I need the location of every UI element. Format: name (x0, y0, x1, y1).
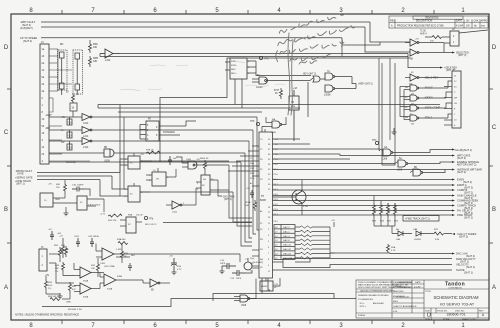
svg-text:L308: L308 (382, 159, 388, 161)
counter 2R box (152, 172, 166, 186)
ground 3C (64, 210, 69, 216)
svg-text:4D: 4D (148, 119, 151, 121)
handwriting row 2 (276, 25, 356, 46)
wire 6B joins (234, 279, 256, 301)
wire UP TO SPEED bus (41, 37, 342, 39)
svg-text:2K: 2K (275, 93, 278, 95)
wire drop col 1 (229, 165, 252, 218)
svg-text:D.M.: D.M. (393, 311, 398, 313)
svg-text:TOLERANCES:: TOLERANCES: (358, 298, 374, 301)
svg-text:PRODUCTION RELEASE PER ECO 1: PRODUCTION RELEASE PER ECO 17368 (397, 24, 444, 27)
crystal Y1 (244, 262, 252, 270)
MCU left stubs (228, 146, 259, 268)
test point TP6 (259, 56, 262, 59)
svg-text:DAC-4: DAC-4 (283, 235, 290, 238)
svg-text:9C: 9C (128, 224, 131, 226)
svg-text:-INDEX: -INDEX (424, 96, 433, 100)
svg-text:6A: 6A (399, 157, 402, 160)
wire command seek (273, 200, 453, 202)
svg-text:APPD: APPD (481, 20, 488, 23)
svg-text:TITLE: TITLE (425, 291, 431, 293)
svg-text:QUALITY ASSURANCE: QUALITY ASSURANCE (393, 305, 417, 308)
flip-flop 5C a (128, 156, 140, 169)
wire U308 out (49, 153, 245, 162)
gate 9A trk0 (410, 115, 419, 121)
box 4N FWD control (230, 58, 247, 79)
inverter 6E (150, 279, 160, 287)
svg-text:6B: 6B (410, 59, 413, 61)
wire Q1 leads (273, 180, 303, 215)
inverter 6C (410, 39, 419, 46)
svg-text:(16.8 MHZ): (16.8 MHZ) (252, 262, 263, 264)
vertical feeder columns (379, 58, 404, 165)
resistor R44 562 (62, 262, 65, 272)
MCU left pin labels (250, 158, 255, 273)
wire FORWARD feeds (140, 121, 196, 139)
svg-text:(SHT 2): (SHT 2) (457, 156, 466, 160)
svg-text:CHK: CHK (473, 20, 478, 23)
wire gate input feeders (400, 78, 410, 120)
svg-text:4.7K: 4.7K (391, 250, 396, 252)
pull-up Y10 box 3 (67, 144, 72, 150)
svg-text:R4B: R4B (128, 215, 133, 217)
capacitor C30 (72, 187, 84, 192)
wire bottom long bus (42, 279, 356, 307)
svg-text:8T: 8T (261, 194, 264, 198)
svg-text:20PF: 20PF (220, 263, 226, 265)
capacitor C8 ohm (76, 238, 80, 247)
zone ticks bottom (62, 320, 434, 324)
svg-text:.XXX ±: .XXX ± (359, 306, 367, 308)
svg-text:HDY (3HT 2): HDY (3HT 2) (303, 74, 316, 76)
zone letters left (4, 45, 9, 291)
nand gate 7A (325, 73, 335, 80)
inverter U4 L314 (82, 138, 92, 145)
wire WRT GATE line (340, 154, 452, 156)
inverter U3 L314 (82, 127, 92, 134)
wire drop col 7 (253, 130, 256, 234)
resistor RPA 330 (89, 42, 92, 53)
svg-text:A: A (492, 285, 496, 291)
svg-text:1%: 1% (55, 271, 58, 273)
svg-text:W. Schroeder: W. Schroeder (396, 297, 410, 299)
svg-text:(SHT 1): (SHT 1) (464, 215, 473, 219)
svg-text:350A: 350A (83, 280, 89, 283)
test point TP9 (256, 122, 259, 125)
wire compg track (273, 205, 453, 207)
wire ff stubs (120, 105, 152, 197)
svg-text:8C: 8C (411, 72, 414, 74)
ground right mid (392, 128, 397, 135)
wire bank tops (374, 196, 395, 227)
svg-text:DAC-16: DAC-16 (283, 244, 292, 247)
wire drop col 6 (249, 141, 252, 238)
wire drop col 3 (237, 161, 252, 226)
resistor R 200 (432, 36, 442, 39)
resistor R40 220 (64, 183, 67, 193)
svg-text:B: B (4, 207, 8, 213)
svg-text:-DIR: -DIR (45, 127, 50, 130)
svg-text:2R: 2R (156, 179, 159, 181)
MCU U7 8008 (259, 132, 273, 278)
svg-text:DAC-8: DAC-8 (283, 239, 290, 242)
ground crystal (220, 266, 225, 274)
wire fine track (273, 214, 453, 216)
svg-text:GATE: GATE (17, 173, 24, 176)
svg-text:330: 330 (93, 46, 98, 49)
resistor 8737 2K (280, 88, 283, 99)
svg-text:51Ω: 51Ω (61, 245, 65, 247)
svg-text:R506 2K: R506 2K (200, 158, 209, 160)
pointer line from note (288, 33, 293, 115)
svg-text:.XX ±: .XX ± (359, 303, 365, 305)
wire crystal to MCU (246, 258, 259, 273)
svg-text:+SERVO GATE: +SERVO GATE (15, 176, 33, 179)
svg-text:GND: GND (66, 302, 71, 304)
op-amp 323A (104, 274, 116, 286)
svg-text:TP9: TP9 (250, 120, 255, 123)
op-amp 330A (80, 283, 91, 294)
svg-text:5C: 5C (130, 163, 133, 165)
wire drop col 5 (245, 153, 252, 242)
zone ticks top (62, 10, 434, 14)
test point TPb (144, 216, 147, 219)
DAC latch rows 9C (274, 225, 295, 260)
svg-text:SCHEMATIC DIAGRAM: SCHEMATIC DIAGRAM (433, 295, 479, 300)
wire bus y104 (98, 104, 440, 106)
svg-text:8737: 8737 (274, 90, 280, 92)
right side signal labels (455, 148, 482, 238)
svg-text:+5V: +5V (140, 154, 144, 156)
gate 9F seek comp (410, 105, 419, 111)
svg-text:TPb: TPb (149, 219, 154, 221)
resistor R7B 2K pullup (146, 151, 160, 154)
svg-text:8B: 8B (104, 146, 107, 149)
wire 9C stubs (120, 220, 252, 226)
capacitor C8 +5V (171, 258, 177, 272)
resistor R63 562 (50, 298, 60, 301)
svg-text:C49 10R A: C49 10R A (88, 235, 99, 238)
svg-text:GA-(B)(SHT 1): GA-(B)(SHT 1) (455, 148, 472, 152)
title block (356, 280, 489, 318)
wire 8A out (252, 79, 310, 82)
wire 1A joins (196, 171, 229, 196)
wire drop col 2 (233, 192, 252, 222)
svg-text:MFG: MFG (393, 301, 398, 303)
wire left rows (37, 159, 120, 196)
capacitor C22 (128, 263, 132, 271)
svg-text:9C: 9C (405, 97, 408, 99)
svg-text:B: B (492, 207, 496, 213)
ground analog (58, 293, 63, 299)
nand gate 8A2 L3008 (325, 85, 335, 92)
wire RESET (266, 278, 280, 286)
resistor RW 1K +24V (62, 238, 65, 258)
svg-text:I/O SERVO 703-AT: I/O SERVO 703-AT (440, 302, 475, 307)
capacitor C13 (232, 270, 246, 276)
svg-text:L314: L314 (105, 59, 111, 62)
wire GA out (380, 149, 452, 153)
pot TB (289, 90, 299, 141)
transistor Q1 (292, 190, 306, 204)
svg-text:4-2-84: 4-2-84 (456, 24, 464, 27)
pull-up Y10 box 2 (67, 132, 72, 138)
svg-text:ANGULAR: ANGULAR (373, 302, 384, 305)
svg-text:SHEET 1 OF 2: SHEET 1 OF 2 (462, 319, 477, 321)
resistor RP4A (254, 200, 257, 211)
svg-text:L343: L343 (100, 263, 106, 265)
svg-text:5C: 5C (130, 194, 133, 196)
svg-text:FORWARD: FORWARD (163, 131, 175, 134)
transistor 3C box (77, 196, 87, 210)
flip-flop 5C b (128, 186, 140, 202)
svg-text:DR: DR (454, 98, 458, 100)
wire CHG CT feed (391, 226, 393, 234)
capacitor C49 (90, 238, 94, 247)
wire DAC output (295, 253, 452, 262)
wire A-8 bus (41, 26, 365, 28)
latch 9C box bottom (126, 217, 136, 233)
gate GA L308 (383, 149, 393, 156)
svg-text:C8 Ω: C8 Ω (74, 236, 79, 238)
wire even (273, 179, 453, 181)
svg-text:1%: 1% (48, 288, 51, 290)
FORWARD box 4D (146, 121, 159, 141)
MCU inner pin numbers (260, 139, 271, 273)
svg-text:8B: 8B (414, 167, 417, 169)
svg-text:L314: L314 (83, 146, 89, 149)
svg-text:DATE: DATE (456, 20, 463, 23)
svg-text:NONE: NONE (443, 319, 450, 321)
wire upper rows (273, 138, 301, 140)
connector J5 (39, 249, 47, 271)
wire J8 feed (425, 37, 450, 52)
resistor R41 22K (108, 214, 122, 217)
arrowheads right labels (452, 149, 455, 255)
capacitor C +EF (50, 231, 54, 240)
handwriting row 3 (279, 41, 344, 54)
svg-text:10K: 10K (91, 268, 95, 270)
box YA11 (40, 193, 53, 207)
svg-text:RA: RA (272, 118, 276, 121)
wire bus y112 (118, 111, 262, 113)
or gate 1A (313, 76, 320, 82)
svg-text:(A-8)(SHT): (A-8)(SHT) (20, 26, 33, 30)
svg-text:(SHT 2): (SHT 2) (459, 234, 468, 238)
right mid labels (424, 76, 441, 120)
wire gain change (273, 195, 453, 197)
buffer gate U1 L314 (100, 49, 120, 58)
svg-text:REV+: REV+ (231, 73, 237, 75)
svg-text:L314: L314 (83, 135, 89, 138)
wire DAC row joins (295, 222, 335, 258)
svg-text:MOTOR (SHT 2): MOTOR (SHT 2) (457, 163, 476, 167)
svg-text:L304: L304 (172, 212, 178, 214)
svg-text:CORPORATION: CORPORATION (448, 287, 462, 290)
svg-text:DAC-32: DAC-32 (283, 248, 292, 251)
connector J8 (450, 31, 459, 46)
inverter U2 L314 (82, 114, 92, 121)
RESET box (260, 281, 273, 291)
wire -WRT FAULT bus (41, 21, 370, 23)
long mid buses (98, 105, 440, 113)
connector J3 (40, 44, 49, 164)
wire gate corner feed (342, 42, 380, 57)
gate 9C index (410, 95, 419, 101)
inverter 6D (410, 49, 419, 56)
svg-text:4.7V: 4.7V (177, 269, 182, 271)
wire long bus from gate (90, 40, 408, 57)
wire 6C out (405, 30, 488, 43)
svg-text:R.Bridgeman: R.Bridgeman (399, 287, 413, 289)
svg-text:+5V: +5V (415, 39, 419, 41)
test point TP3 (375, 141, 378, 144)
revision table (389, 16, 488, 28)
svg-text:20PF: 20PF (236, 278, 242, 280)
resistor R47 1K (65, 246, 68, 257)
svg-text:(SHT 2): (SHT 2) (23, 39, 32, 43)
ground C8 (172, 272, 177, 275)
svg-text:GVD 329A: GVD 329A (104, 265, 115, 268)
wire 323A joins (100, 273, 143, 289)
svg-text:AVR 4: AVR 4 (420, 33, 427, 36)
svg-text:100 uF: 100 uF (136, 215, 143, 217)
wire ermt A (273, 184, 453, 186)
svg-text:L3008: L3008 (256, 87, 263, 89)
wire L304 (166, 188, 196, 205)
boundary staircase wire (160, 58, 410, 162)
resistor elements inside packs (60, 52, 80, 95)
svg-text:100PF: 100PF (77, 185, 84, 187)
svg-text:NDO U3CC: NDO U3CC (145, 224, 157, 226)
resistor R50 402 (69, 282, 72, 293)
wire J7 stubs (419, 78, 452, 126)
svg-text:+REF (SHT 2): +REF (SHT 2) (358, 84, 373, 86)
svg-text:R3A 680: R3A 680 (117, 238, 126, 241)
svg-text:330: 330 (93, 60, 98, 63)
resistor R2A 4.7K (387, 244, 390, 253)
svg-text:L3008: L3008 (324, 95, 331, 97)
svg-text:7A: 7A (327, 70, 330, 73)
handwriting row 5 (299, 60, 317, 65)
svg-text:+5V: +5V (246, 188, 250, 190)
svg-text:6E: 6E (151, 290, 154, 292)
svg-text:L308: L308 (271, 132, 277, 134)
svg-text:8008: 8008 (260, 198, 266, 202)
svg-text:+5V: +5V (48, 184, 52, 186)
gate 8B L308 (413, 169, 423, 176)
svg-text:3C: 3C (80, 202, 83, 204)
wire analog verticals join (98, 243, 130, 277)
svg-text:D: D (427, 313, 431, 319)
svg-text:(SHT 1): (SHT 1) (224, 199, 232, 201)
svg-text:C: C (4, 130, 9, 136)
wire YA11 connects (53, 180, 104, 212)
resistor R506 2K (204, 160, 207, 171)
FINE TRACK callout (403, 216, 439, 222)
handwriting paren left (275, 51, 279, 62)
wire drop col 4 (241, 162, 252, 246)
pull-up Y10 box 1 (67, 119, 72, 125)
svg-text:TB: TB (291, 102, 294, 104)
resistor R55 vertical (59, 247, 62, 258)
bus comb MCU to right labels (273, 139, 453, 215)
svg-text:R7B 2K: R7B 2K (146, 150, 154, 152)
svg-text:D: D (4, 45, 9, 51)
svg-text:REV-: REV- (231, 69, 236, 71)
svg-text:.1uF: .1uF (172, 158, 177, 160)
svg-text:P(w): P(w) (250, 258, 254, 260)
svg-text:323A: 323A (107, 288, 113, 291)
capacitor CB left of MCU (250, 190, 254, 198)
wire 2R stubs (146, 168, 176, 180)
resistor pack 8D dashed box A (58, 50, 68, 90)
svg-text:+5V: +5V (331, 220, 335, 222)
wire comp B (273, 189, 453, 191)
inverter L304 (172, 201, 182, 209)
svg-text:IND: IND (131, 255, 135, 257)
svg-text:+1F: +1F (48, 229, 52, 231)
wire gate feed (97, 105, 99, 109)
handwriting row 1 (278, 13, 346, 33)
svg-text:YA11: YA11 (55, 198, 61, 201)
svg-text:RP4A: RP4A (245, 201, 251, 204)
svg-text:CHECKED: CHECKED (393, 291, 404, 293)
capacitor C14 (222, 263, 236, 269)
wire P2 bus (273, 169, 453, 171)
wire 329A joins (96, 244, 240, 263)
svg-text:(SHT 2): (SHT 2) (458, 54, 467, 57)
wire drop col 8 (257, 117, 259, 230)
resistor R35 vertical (121, 249, 124, 260)
svg-text:(SHT 2): (SHT 2) (457, 170, 466, 174)
svg-text:DESCRIPTION: DESCRIPTION (416, 20, 433, 23)
svg-text:mw: mw (481, 24, 485, 27)
svg-text:DAC-64: DAC-64 (283, 252, 292, 255)
wire bottom-right feeds (273, 259, 453, 271)
svg-text:L308: L308 (397, 170, 403, 172)
svg-text:FINISH: FINISH (358, 315, 366, 317)
zone letters right (492, 45, 497, 291)
diode CR5 (416, 231, 434, 236)
wire 350A joins (63, 263, 104, 276)
wire 6A out (395, 162, 452, 164)
svg-text:A: A (4, 285, 8, 291)
handwriting paren right (340, 38, 343, 47)
Tandon logo (445, 282, 465, 290)
wire L508 joins (176, 157, 202, 167)
nand gate RA L308 above MCU (272, 121, 282, 128)
svg-text:-TRK 0: -TRK 0 (424, 116, 433, 120)
diode CR6 (392, 231, 412, 236)
svg-text:UNLESS OTHERWISE SPECIFIED: UNLESS OTHERWISE SPECIFIED (360, 291, 395, 293)
svg-text:5D: 5D (202, 185, 205, 187)
svg-text:71.00: 71.00 (420, 31, 426, 33)
resistor R3A 680 (118, 242, 128, 245)
faint eraser smudges (120, 62, 285, 91)
resistor R43 64.3 (45, 279, 48, 290)
nand gate 6B bottom (240, 295, 250, 302)
zone numbers bottom (29, 323, 465, 328)
op-amp 329A (102, 248, 114, 260)
nand gate 8A L3008 (259, 77, 268, 84)
and gate U5 U308 (104, 149, 114, 157)
wire 8B out (410, 170, 445, 173)
svg-text:Ona 3.0p: Ona 3.0p (66, 161, 77, 164)
wire 330A joins (74, 286, 100, 292)
svg-text:DIMENSIONS ARE IN INCHES: DIMENSIONS ARE IN INCHES (358, 294, 389, 297)
svg-text:R41 22K: R41 22K (108, 220, 117, 222)
